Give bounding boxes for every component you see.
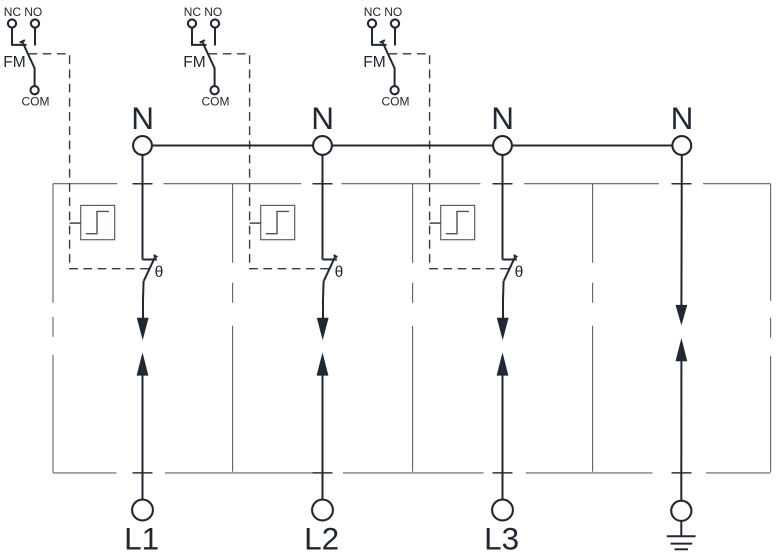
svg-text:NO: NO xyxy=(384,5,402,19)
FM2 COM terminal xyxy=(211,86,219,94)
FM3 COM terminal xyxy=(391,86,399,94)
thermal switch F2 blade xyxy=(324,256,335,280)
svg-text:L2: L2 xyxy=(304,521,339,554)
thermal switch F3 blade tick xyxy=(514,255,518,257)
thermal sensor step symbol xyxy=(446,211,469,233)
FM3 changeover switch blade xyxy=(382,42,394,87)
FM3 blade contact tick xyxy=(380,40,385,43)
surge arrester gap branch 1: lower arrow xyxy=(137,352,149,375)
terminal L3 xyxy=(492,500,513,521)
wire arrester to L3 terminal xyxy=(502,373,504,500)
thermal switch F1 blade xyxy=(144,256,155,280)
wire N terminal to N-PE gap xyxy=(680,155,682,308)
svg-text:COM: COM xyxy=(202,95,230,109)
surge arrester gap branch 3: lower arrow xyxy=(497,352,509,375)
surge arrester gap branch 1: upper arrow xyxy=(137,318,149,341)
wire gap to earth terminal xyxy=(680,359,682,501)
svg-text:N: N xyxy=(131,100,154,136)
enclosure bottom edge xyxy=(53,472,771,474)
terminal N (branch 4) xyxy=(672,136,691,155)
wire FM3 link to thermal switch (dashed) xyxy=(389,54,511,269)
FM2 blade contact tick xyxy=(200,40,205,43)
terminal N (branch 1) xyxy=(133,136,152,155)
svg-text:NC: NC xyxy=(184,5,202,19)
svg-text:FM: FM xyxy=(3,54,25,71)
thermal switch F1 fixed contact xyxy=(143,259,157,261)
tick: wire crossing top edge at x=682 xyxy=(672,183,692,185)
svg-text:N: N xyxy=(671,100,694,136)
svg-text:NO: NO xyxy=(204,5,222,19)
svg-text:θ: θ xyxy=(155,264,164,281)
thermal switch F3 fixed contact xyxy=(503,259,517,261)
svg-text:L3: L3 xyxy=(484,521,519,554)
N-PE spark gap: lower arrow xyxy=(676,338,688,361)
wire earth stub xyxy=(680,521,682,536)
enclosure divider 3 xyxy=(592,184,594,473)
svg-text:FM: FM xyxy=(363,54,385,71)
wire N terminal to thermal switch xyxy=(502,155,504,260)
enclosure divider 1 xyxy=(232,184,234,473)
svg-text:FM: FM xyxy=(183,54,205,71)
thermal sensor step symbol xyxy=(266,211,289,233)
svg-text:COM: COM xyxy=(22,95,50,109)
svg-text:θ: θ xyxy=(515,264,524,281)
enclosure left edge xyxy=(52,184,54,473)
tick: wire crossing bottom edge at x=502 xyxy=(493,472,513,474)
thermal sensor box (branch 2) xyxy=(261,205,295,239)
thermal switch F2 fixed contact xyxy=(323,259,337,261)
thermal sensor box (branch 3) xyxy=(441,205,475,239)
svg-text:N: N xyxy=(311,100,334,136)
FM3 NO terminal xyxy=(391,19,399,27)
wire FM3 NO lead xyxy=(394,28,396,46)
tick: wire crossing top edge at x=142 xyxy=(133,183,153,185)
wire FM1 NO lead xyxy=(34,28,36,46)
thermal switch F2 blade tick xyxy=(334,255,338,257)
terminal L2 xyxy=(312,500,333,521)
tick: wire crossing bottom edge at x=142 xyxy=(133,472,153,474)
wire switch to arrester gap xyxy=(142,281,145,321)
svg-text:L1: L1 xyxy=(124,521,159,554)
FM1 COM terminal xyxy=(30,86,38,94)
terminal L1 xyxy=(132,500,153,521)
FM2 NC terminal xyxy=(188,19,196,27)
N-PE spark gap: upper arrow xyxy=(676,305,688,326)
FM2 changeover switch blade xyxy=(202,42,214,87)
thermal switch F1 blade tick xyxy=(154,255,158,257)
enclosure right edge xyxy=(770,184,772,473)
FM1 NO terminal xyxy=(31,19,39,27)
wire N terminal to thermal switch xyxy=(142,155,144,260)
wire N terminal to thermal switch xyxy=(322,155,324,260)
wire FM3 NC lead xyxy=(372,28,387,45)
svg-text:COM: COM xyxy=(382,95,410,109)
terminal N (branch 2) xyxy=(313,136,332,155)
svg-text:NC: NC xyxy=(364,5,382,19)
terminal N (branch 3) xyxy=(493,136,512,155)
FM3 NC terminal xyxy=(368,19,376,27)
wire sensor box lead xyxy=(70,222,81,224)
wire arrester to L1 terminal xyxy=(142,373,144,500)
surge arrester gap branch 3: upper arrow xyxy=(497,318,509,341)
earth symbol bar 1 xyxy=(667,535,696,537)
wire sensor box lead xyxy=(250,222,261,224)
wire FM2 link to thermal switch (dashed) xyxy=(209,54,331,269)
tick: wire crossing bottom edge at x=682 xyxy=(672,472,692,474)
enclosure divider 2 xyxy=(412,184,414,473)
enclosure top edge xyxy=(53,183,771,185)
thermal sensor box (branch 1) xyxy=(81,205,115,239)
svg-text:NO: NO xyxy=(24,5,42,19)
svg-text:N: N xyxy=(491,100,514,136)
wire switch to arrester gap xyxy=(322,281,325,321)
wire arrester to L2 terminal xyxy=(322,373,324,500)
surge arrester gap branch 2: upper arrow xyxy=(317,318,329,341)
FM1 NC terminal xyxy=(8,19,16,27)
thermal switch F3 blade xyxy=(504,256,515,280)
earth symbol bar 2 xyxy=(671,543,693,545)
wire FM2 NO lead xyxy=(214,28,216,46)
earth terminal xyxy=(671,501,691,521)
wire FM2 NC lead xyxy=(192,28,207,45)
tick: wire crossing top edge at x=502 xyxy=(493,183,513,185)
svg-text:θ: θ xyxy=(335,264,344,281)
tick: wire crossing bottom edge at x=322 xyxy=(313,472,333,474)
surge arrester gap branch 2: lower arrow xyxy=(317,352,329,375)
earth symbol bar 3 xyxy=(675,548,688,550)
wire FM1 link to thermal switch (dashed) xyxy=(29,54,151,269)
wire switch to arrester gap xyxy=(502,281,505,321)
thermal sensor step symbol xyxy=(86,211,109,233)
FM1 changeover switch blade xyxy=(22,42,34,87)
tick: wire crossing top edge at x=322 xyxy=(313,183,333,185)
FM2 NO terminal xyxy=(211,19,219,27)
wire sensor box lead xyxy=(430,222,441,224)
wire FM1 NC lead xyxy=(12,28,27,45)
wire N bus xyxy=(143,145,682,147)
svg-text:NC: NC xyxy=(4,5,22,19)
FM1 blade contact tick xyxy=(20,40,25,43)
